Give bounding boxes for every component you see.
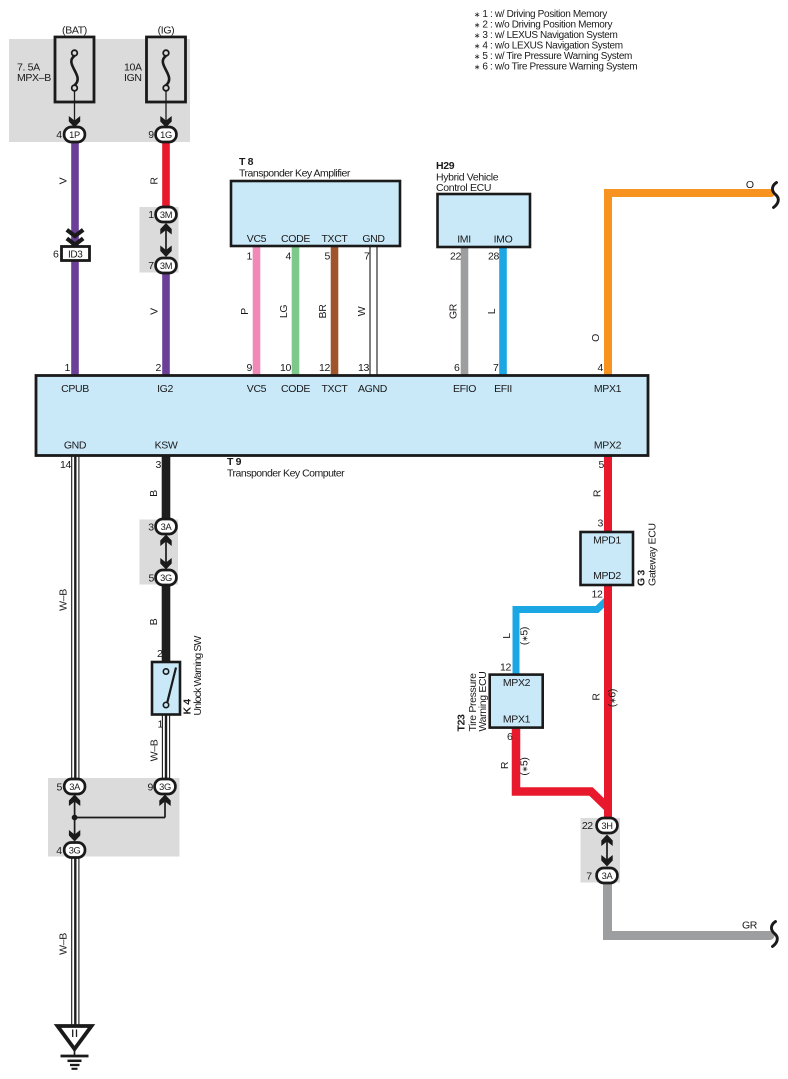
svg-text:1: 1	[158, 719, 164, 731]
svg-text:KSW: KSW	[155, 440, 178, 452]
svg-text:4: 4	[56, 845, 62, 857]
svg-text:GR: GR	[448, 303, 460, 319]
svg-text:W–B: W–B	[58, 589, 70, 611]
svg-text:4: 4	[598, 362, 604, 374]
svg-text:T 9: T 9	[227, 456, 242, 468]
svg-text:W–B: W–B	[149, 739, 161, 761]
svg-text:9: 9	[148, 129, 154, 141]
svg-text:12: 12	[500, 662, 511, 674]
svg-text:9: 9	[148, 782, 154, 794]
svg-text:7: 7	[148, 260, 154, 272]
svg-text:2: 2	[157, 648, 163, 660]
svg-text:EFII: EFII	[494, 383, 512, 395]
svg-text:LG: LG	[278, 305, 290, 318]
svg-text:6: 6	[507, 731, 513, 743]
svg-text:VC5: VC5	[247, 233, 267, 245]
svg-text:1P: 1P	[69, 130, 80, 140]
svg-text:MPX1: MPX1	[594, 383, 622, 395]
svg-text:MPX2: MPX2	[503, 677, 531, 689]
svg-text:BR: BR	[317, 304, 329, 319]
svg-text:7: 7	[493, 362, 499, 374]
svg-text:GR: GR	[742, 920, 758, 932]
svg-text:EFIO: EFIO	[453, 383, 476, 395]
svg-text:3M: 3M	[160, 261, 172, 271]
svg-text:GND: GND	[362, 233, 385, 245]
svg-text:(IG): (IG)	[158, 25, 175, 37]
svg-text:12: 12	[319, 362, 330, 374]
svg-text:MPX–B: MPX–B	[17, 72, 51, 84]
svg-text:MPX2: MPX2	[594, 440, 622, 452]
svg-text:3M: 3M	[160, 210, 172, 220]
svg-text:Unlock Warning SW: Unlock Warning SW	[192, 635, 204, 715]
svg-text:4: 4	[56, 129, 62, 141]
svg-text:(∗6): (∗6)	[607, 689, 619, 707]
svg-text:MPD1: MPD1	[593, 535, 621, 547]
svg-text:ID3: ID3	[68, 250, 83, 261]
svg-text:7: 7	[586, 871, 592, 883]
svg-text:28: 28	[488, 251, 499, 263]
svg-text:W–B: W–B	[58, 933, 70, 955]
svg-text:14: 14	[60, 459, 71, 471]
svg-text:Transponder Key Computer: Transponder Key Computer	[227, 468, 345, 480]
svg-text:(∗5): (∗5)	[519, 757, 531, 775]
svg-text:5: 5	[149, 573, 155, 585]
svg-text:Transponder Key Amplifier: Transponder Key Amplifier	[239, 168, 351, 180]
svg-text:Control ECU: Control ECU	[436, 182, 491, 194]
svg-text:3A: 3A	[69, 782, 81, 792]
svg-text:O: O	[590, 334, 602, 342]
svg-text:3A: 3A	[602, 871, 614, 881]
svg-text:CODE: CODE	[281, 233, 310, 245]
svg-text:12: 12	[592, 589, 603, 601]
svg-text:3G: 3G	[160, 573, 172, 583]
svg-text:13: 13	[358, 362, 369, 374]
svg-text:R: R	[149, 177, 161, 185]
svg-text:R: R	[499, 761, 511, 769]
svg-text:22: 22	[582, 820, 593, 832]
svg-text:7: 7	[364, 251, 370, 263]
svg-text:3A: 3A	[161, 522, 173, 532]
svg-text:TXCT: TXCT	[321, 233, 348, 245]
svg-text:∗ 4 : w/o LEXUS Navigation Sys: ∗ 4 : w/o LEXUS Navigation System	[474, 40, 623, 51]
svg-text:10: 10	[280, 362, 291, 374]
svg-text:AGND: AGND	[358, 383, 388, 395]
svg-text:(BAT): (BAT)	[62, 25, 87, 37]
svg-text:V: V	[149, 308, 161, 315]
svg-text:1: 1	[148, 209, 154, 221]
svg-text:3: 3	[148, 522, 154, 534]
svg-text:1G: 1G	[160, 130, 172, 140]
svg-text:∗ 1 : w/ Driving Position Memo: ∗ 1 : w/ Driving Position Memory	[474, 9, 607, 20]
svg-text:GND: GND	[64, 440, 87, 452]
svg-text:∗ 5 : w/ Tire Pressure Warning: ∗ 5 : w/ Tire Pressure Warning System	[474, 51, 632, 62]
svg-text:R: R	[591, 693, 603, 701]
svg-text:O: O	[746, 179, 754, 191]
svg-text:6: 6	[454, 362, 460, 374]
svg-text:∗ 6 : w/o Tire Pressure Warnin: ∗ 6 : w/o Tire Pressure Warning System	[474, 61, 637, 72]
svg-text:5: 5	[599, 459, 605, 471]
svg-text:H29: H29	[436, 160, 455, 172]
svg-text:IMI: IMI	[457, 234, 471, 246]
svg-text:1: 1	[65, 362, 71, 374]
svg-text:CODE: CODE	[281, 383, 310, 395]
svg-text:L: L	[486, 308, 498, 314]
svg-text:22: 22	[450, 251, 461, 263]
svg-text:T 8: T 8	[239, 156, 254, 168]
svg-text:4: 4	[286, 251, 292, 263]
svg-text:R: R	[592, 489, 604, 497]
svg-text:CPUB: CPUB	[61, 383, 89, 395]
svg-text:3H: 3H	[601, 821, 612, 831]
svg-text:Gateway ECU: Gateway ECU	[647, 523, 659, 586]
svg-text:B: B	[148, 618, 160, 625]
svg-text:3: 3	[598, 518, 604, 530]
svg-text:P: P	[239, 308, 251, 315]
svg-text:MPX1: MPX1	[503, 714, 531, 726]
svg-text:9: 9	[247, 362, 253, 374]
svg-text:5: 5	[325, 251, 331, 263]
svg-text:B: B	[148, 490, 160, 497]
svg-text:3G: 3G	[159, 782, 171, 792]
svg-text:3G: 3G	[69, 845, 81, 855]
svg-text:W: W	[356, 306, 368, 316]
svg-text:∗ 2 : w/o Driving Position Mem: ∗ 2 : w/o Driving Position Memory	[474, 19, 612, 30]
svg-text:VC5: VC5	[247, 383, 267, 395]
svg-text:T23: T23	[456, 714, 468, 732]
svg-text:IGN: IGN	[124, 72, 142, 84]
svg-text:1: 1	[247, 251, 253, 263]
svg-text:6: 6	[53, 249, 59, 261]
svg-text:(∗5): (∗5)	[519, 627, 531, 645]
svg-text:Warning ECU: Warning ECU	[477, 672, 489, 732]
svg-text:V: V	[58, 177, 70, 184]
svg-text:IG2: IG2	[157, 383, 173, 395]
svg-text:IMO: IMO	[494, 234, 513, 246]
svg-text:MPD2: MPD2	[593, 570, 621, 582]
svg-text:3: 3	[156, 459, 162, 471]
svg-text:TXCT: TXCT	[321, 383, 348, 395]
svg-text:2: 2	[156, 362, 162, 374]
svg-text:5: 5	[57, 782, 63, 794]
svg-text:∗ 3 : w/ LEXUS Navigation Syst: ∗ 3 : w/ LEXUS Navigation System	[474, 30, 618, 41]
svg-text:L: L	[501, 633, 513, 639]
